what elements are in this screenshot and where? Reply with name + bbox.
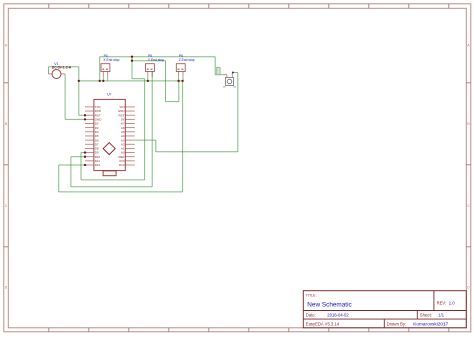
svg-text:REV:: REV:: [437, 300, 447, 305]
svg-text:Z End stop: Z End stop: [179, 58, 195, 62]
svg-text:X End stop: X End stop: [103, 58, 119, 62]
svg-text:2018-04-02: 2018-04-02: [327, 313, 349, 318]
svg-text:Y End stop: Y End stop: [148, 58, 164, 62]
svg-text:TITLE:: TITLE:: [306, 293, 317, 297]
svg-text:EasyEDA V5.3.14: EasyEDA V5.3.14: [306, 321, 340, 326]
svg-text:D12: D12: [95, 163, 101, 167]
svg-text:DC-5v-1-2-A: DC-5v-1-2-A: [52, 66, 72, 70]
svg-text:1/1: 1/1: [438, 313, 444, 318]
svg-text:U?: U?: [107, 93, 111, 97]
svg-text:D13: D13: [119, 163, 125, 167]
svg-text:1.0: 1.0: [449, 300, 455, 305]
svg-text:Komarovski2017: Komarovski2017: [413, 322, 448, 327]
svg-text:Drawn By:: Drawn By:: [387, 321, 406, 326]
svg-text:New Schematic: New Schematic: [307, 302, 352, 309]
svg-text:Sheet:: Sheet:: [420, 313, 432, 318]
svg-text:Date:: Date:: [306, 313, 316, 318]
